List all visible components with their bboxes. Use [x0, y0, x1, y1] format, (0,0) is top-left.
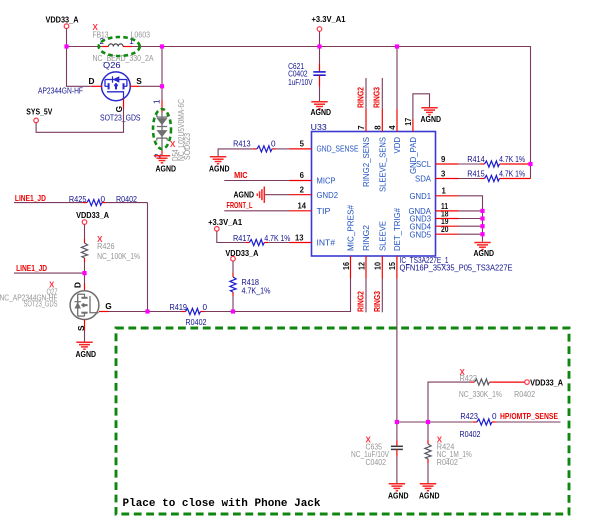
net label RING3 top — [372, 87, 382, 108]
junction GND3 bus — [480, 216, 484, 220]
svg-text:1: 1 — [442, 187, 447, 196]
wire GND3 pin 18 — [436, 218, 483, 220]
svg-text:R419: R419 — [170, 303, 188, 312]
svg-text:D: D — [73, 282, 83, 288]
power terminal VDD33_A at R418 — [225, 248, 258, 261]
svg-text:SLEEVE: SLEEVE — [377, 221, 387, 251]
wire R425 down to Q27 gate node — [147, 203, 149, 312]
capacitor C635 (NC) — [351, 422, 403, 484]
svg-text:VDD33_A: VDD33_A — [46, 15, 79, 25]
svg-text:RING2: RING2 — [355, 87, 365, 108]
resistor R415 on SDA pin 3 — [436, 170, 531, 182]
svg-text:SYS_5V: SYS_5V — [26, 107, 52, 117]
svg-text:INT#: INT# — [317, 238, 336, 248]
wire GND4 pin 19 — [436, 225, 483, 227]
wire GND_PAD pin 17 to ground — [413, 94, 430, 132]
resistor R424 (NC) — [425, 422, 472, 484]
svg-text:D: D — [89, 76, 95, 86]
junction GND5 bus — [480, 232, 484, 236]
pin stub Q27 G / wire to node — [99, 311, 148, 313]
chip U33 body — [311, 123, 436, 256]
junction R422 / R424 branch — [426, 420, 430, 424]
wire RING2 pin 7 — [365, 78, 367, 132]
svg-text:SOD523: SOD523 — [183, 133, 192, 160]
svg-text:12: 12 — [357, 261, 366, 270]
power terminal +3.3V_A1 at R417 — [208, 217, 242, 231]
svg-text:8: 8 — [374, 125, 383, 130]
net label RING3 bottom — [372, 291, 382, 312]
net label MIC / wire pin 6 — [224, 170, 311, 181]
svg-text:7: 7 — [357, 125, 366, 129]
svg-text:R0402: R0402 — [514, 390, 535, 399]
ground AGND right bus — [474, 243, 495, 258]
svg-text:AGND: AGND — [234, 190, 255, 200]
svg-text:4.7K_1%: 4.7K_1% — [242, 287, 271, 296]
svg-text:R417: R417 — [233, 234, 251, 243]
svg-text:13: 13 — [295, 233, 304, 242]
ground AGND sideways at GND2 pin 2 — [234, 187, 312, 203]
svg-text:SOT23_GDS: SOT23_GDS — [100, 114, 141, 123]
green dashed box Phone Jack — [116, 328, 569, 514]
transistor Q27 (NC) — [0, 281, 112, 332]
wire RING2 pin 12 — [365, 256, 367, 312]
svg-text:RING3: RING3 — [372, 291, 382, 312]
svg-text:R426: R426 — [97, 242, 115, 251]
svg-text:VDD33_A: VDD33_A — [76, 210, 109, 220]
svg-text:14: 14 — [298, 202, 307, 211]
svg-text:VDD: VDD — [392, 137, 402, 154]
svg-text:4.7K 1%: 4.7K 1% — [499, 170, 525, 179]
transistor Q26 — [38, 61, 142, 123]
svg-text:NC_100K_1%: NC_100K_1% — [97, 252, 140, 261]
junction SCL at right rail — [528, 162, 532, 166]
resistor R418 — [230, 261, 271, 312]
svg-text:R423: R423 — [460, 412, 478, 421]
svg-text:G: G — [105, 301, 111, 311]
ferrite bead FB13 (NC) — [93, 23, 154, 63]
svg-text:AGND: AGND — [388, 491, 409, 501]
svg-text:R0402: R0402 — [186, 318, 207, 327]
wire DET_TRIG# pin 15 down — [396, 256, 398, 422]
svg-text:C0402: C0402 — [366, 458, 387, 467]
svg-text:AGND: AGND — [474, 248, 495, 258]
svg-text:+3.3V_A1: +3.3V_A1 — [208, 217, 242, 227]
chip U33 part labels — [400, 256, 513, 272]
pin stub Q26 S — [130, 85, 139, 87]
svg-text:VDD33_A: VDD33_A — [225, 248, 258, 258]
junction GND4 bus — [480, 224, 484, 228]
chip U33 top pin numbers — [357, 118, 413, 130]
chip U33 left pin names — [317, 144, 359, 248]
svg-text:1: 1 — [153, 99, 162, 104]
svg-text:VDD33_A: VDD33_A — [530, 378, 563, 388]
junction GNDA bus — [480, 209, 484, 213]
svg-text:AGND: AGND — [156, 164, 177, 174]
svg-text:0: 0 — [492, 412, 497, 421]
junction VDD pin4 at rail — [395, 44, 399, 48]
junction Q27 gate / R425 — [145, 309, 149, 313]
junction DET_TRIG# / R423 / C635 — [395, 420, 399, 424]
junction LINE1_JD / R426 / Q27 drain — [82, 271, 86, 275]
resistor R417 to INT# pin 13 — [217, 231, 312, 245]
ground AGND under C621 — [311, 102, 332, 117]
svg-text:R415: R415 — [467, 170, 485, 179]
svg-text:6: 6 — [300, 171, 305, 180]
svg-text:SDA: SDA — [415, 174, 431, 184]
junction Q26 source / D54 — [160, 84, 164, 88]
svg-text:G: G — [114, 106, 124, 112]
junction R419 / R418 — [231, 309, 235, 313]
svg-text:HP/OMTP_SENSE: HP/OMTP_SENSE — [500, 411, 558, 421]
junction Q26 source at rail — [160, 44, 164, 48]
svg-text:NC_BEAD_330_2A: NC_BEAD_330_2A — [93, 54, 154, 63]
svg-text:S: S — [136, 76, 142, 86]
svg-text:GND_PAD: GND_PAD — [408, 137, 418, 174]
chip U33 top pin names — [361, 137, 418, 192]
svg-text:DET_TRIG#: DET_TRIG# — [392, 208, 402, 251]
resistor R413 — [218, 140, 311, 157]
svg-text:4: 4 — [388, 125, 397, 130]
wire main 3.3V rail — [67, 47, 531, 179]
svg-text:10: 10 — [374, 261, 383, 270]
wire R419 node to MIC_PRES# pin 16 — [233, 256, 351, 312]
svg-text:AGND: AGND — [421, 114, 442, 124]
svg-text:SCL: SCL — [416, 159, 431, 169]
svg-text:LINE1_JD: LINE1_JD — [16, 263, 47, 273]
ground AGND under D54 — [154, 156, 176, 174]
chip U33 right pin names — [409, 159, 432, 239]
power terminal +3.3V_A1 top — [312, 14, 346, 47]
wire D54 to ground — [161, 151, 163, 156]
svg-text:MIC: MIC — [234, 170, 248, 180]
svg-text:SOT23_GDS: SOT23_GDS — [24, 300, 58, 309]
svg-text:TIP: TIP — [317, 206, 331, 216]
wire RING3 pin 8 — [381, 78, 383, 132]
svg-text:U33: U33 — [311, 123, 327, 132]
svg-text:0: 0 — [203, 303, 208, 312]
resistor R426 (NC) — [81, 224, 140, 273]
svg-text:9: 9 — [441, 155, 446, 164]
net label RING2 top — [355, 87, 365, 108]
svg-text:AGND: AGND — [76, 349, 97, 359]
svg-text:MICP: MICP — [317, 175, 336, 185]
wire RING3 pin 10 — [381, 256, 383, 312]
wire Q27 source to ground — [84, 320, 86, 343]
svg-text:3: 3 — [441, 169, 446, 178]
wire SYS_5V to Q26 gate — [36, 109, 123, 133]
svg-text:AGND: AGND — [311, 107, 332, 117]
resistor R414 on SCL pin 9 — [436, 155, 531, 167]
wire node down to Q27 drain — [84, 273, 86, 291]
NC ellipse around D54 — [153, 109, 171, 149]
svg-text:QFN16P_35X35_P05_TS3A227E: QFN16P_35X35_P05_TS3A227E — [400, 264, 513, 273]
resistor R422 (NC) — [428, 368, 535, 422]
svg-text:R414: R414 — [467, 155, 485, 164]
svg-text:GND_SENSE: GND_SENSE — [317, 144, 359, 154]
svg-text:FRONT_L: FRONT_L — [227, 200, 253, 210]
ground AGND under R424 — [419, 484, 440, 501]
svg-text:Q26: Q26 — [103, 61, 121, 70]
svg-text:4.7K 1%: 4.7K 1% — [499, 155, 525, 164]
svg-text:RING2: RING2 — [361, 225, 371, 251]
svg-text:1uF/10V: 1uF/10V — [288, 78, 313, 87]
svg-text:5: 5 — [300, 140, 305, 149]
chip U33 left pin numbers — [295, 140, 307, 243]
svg-text:LINE1_JD: LINE1_JD — [15, 193, 46, 203]
resistor R425 — [14, 195, 148, 206]
svg-text:RING2_SENS: RING2_SENS — [361, 137, 371, 187]
wire VDD33_A to Q26 drain — [67, 47, 92, 87]
svg-text:2: 2 — [300, 186, 305, 195]
resistor R423 — [397, 412, 561, 439]
resistor R419 — [148, 303, 234, 327]
net label RING2 bottom — [356, 291, 366, 312]
wire GND1 pin 1 — [436, 196, 483, 242]
svg-text:GND1: GND1 — [410, 191, 432, 201]
svg-text:GND2: GND2 — [317, 190, 339, 200]
wire GNDA pin 11 — [436, 210, 483, 212]
svg-text:15: 15 — [388, 261, 397, 270]
wire GND5 pin 20 — [436, 233, 483, 235]
wire VDD pin 4 — [396, 47, 398, 132]
chip U33 bottom pin numbers — [342, 261, 397, 270]
svg-text:+3.3V_A1: +3.3V_A1 — [312, 14, 346, 24]
junction VDD33_A at rail — [64, 44, 68, 48]
power terminal VDD33_A at R426 — [76, 210, 109, 224]
svg-text:NC_330K_1%: NC_330K_1% — [459, 390, 502, 399]
svg-text:SLEEVE_SENS: SLEEVE_SENS — [377, 137, 387, 192]
svg-text:R0402: R0402 — [437, 458, 458, 467]
capacitor C621 — [288, 47, 326, 102]
svg-text:R0402: R0402 — [460, 430, 481, 439]
wire Q26 source to rail — [139, 47, 162, 87]
chip U33 bottom pin names — [346, 205, 402, 251]
pin stub Q26 G — [123, 99, 125, 109]
svg-text:RING2: RING2 — [356, 291, 366, 312]
ground AGND under C635 — [388, 484, 409, 501]
svg-text:R413: R413 — [233, 140, 251, 149]
svg-text:16: 16 — [342, 261, 351, 270]
svg-text:17: 17 — [404, 118, 413, 126]
svg-text:AP2344GN-HF: AP2344GN-HF — [38, 87, 83, 96]
net label FRONT_L / wire pin 14 TIP — [224, 200, 311, 211]
power terminal SYS_5V — [26, 107, 52, 123]
ground AGND at R413 — [209, 157, 230, 174]
svg-text:X: X — [170, 140, 176, 149]
svg-text:RING3: RING3 — [372, 87, 382, 108]
svg-text:0: 0 — [271, 140, 276, 149]
net label LINE1_JD lower / wire to node — [14, 263, 85, 273]
diode D54 (NC TVS) — [153, 99, 192, 161]
svg-text:GND5: GND5 — [410, 229, 432, 239]
svg-text:4.7K 1%: 4.7K 1% — [264, 234, 290, 243]
ground AGND at GND_PAD — [421, 108, 442, 124]
svg-text:AGND: AGND — [209, 164, 230, 174]
chip U33 right pin numbers — [441, 155, 449, 234]
NC ellipse around FB13 — [99, 37, 140, 56]
ground AGND under Q27 — [76, 342, 97, 359]
power terminal VDD33_A top-left — [46, 15, 79, 47]
svg-text:MIC_PRES#: MIC_PRES# — [346, 205, 356, 251]
junction +3.3V_A1 at rail — [317, 44, 321, 48]
svg-text:AGND: AGND — [419, 491, 440, 501]
power terminal VDD33_A at R422 — [525, 378, 563, 388]
pin stub Q26 D — [92, 85, 103, 87]
svg-text:Place to close with Phone Jac: Place to close with Phone Jack — [123, 498, 322, 510]
wire source node down to D54 — [161, 86, 163, 112]
